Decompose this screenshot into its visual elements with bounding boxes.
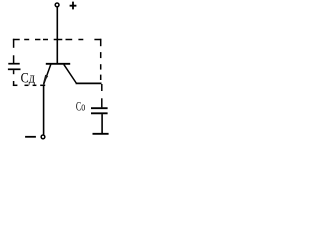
terminal + (top positive input terminal circle)	[55, 3, 59, 7]
dashed box bottom edge	[13, 84, 45, 86]
capacitor Cd bottom plate	[8, 68, 21, 70]
background	[0, 0, 123, 143]
transistor collector leg	[64, 64, 76, 83]
dashed box left edge (upper part, runs into capacitor lead)	[13, 39, 15, 63]
wire base lead from + terminal to transistor base bar	[56, 7, 58, 64]
dashed box left edge (lower part below capacitor)	[13, 70, 15, 86]
lead below Co	[101, 114, 103, 133]
capacitor Co bottom plate	[91, 112, 108, 114]
bottom bar of Co branch	[93, 133, 109, 135]
dashed lead from output wire down to Co	[101, 84, 103, 107]
minus label	[25, 136, 36, 138]
terminal - (bottom negative terminal circle)	[41, 135, 45, 139]
dashed box top edge	[13, 39, 101, 41]
plus label	[70, 2, 77, 10]
svg-text:Cо: Cо	[76, 101, 85, 114]
wire from emitter to minus terminal	[43, 85, 45, 135]
transistor emitter leg (to minus terminal)	[44, 64, 51, 84]
capacitor Co top plate	[91, 107, 108, 109]
svg-text:Сд: Сд	[21, 70, 35, 86]
dashed box right edge	[100, 39, 102, 80]
capacitor Cd top plate	[8, 63, 19, 65]
output wire collector to Co branch	[76, 82, 102, 84]
emitter arrowhead	[43, 75, 48, 84]
transistor base bar	[46, 63, 70, 65]
